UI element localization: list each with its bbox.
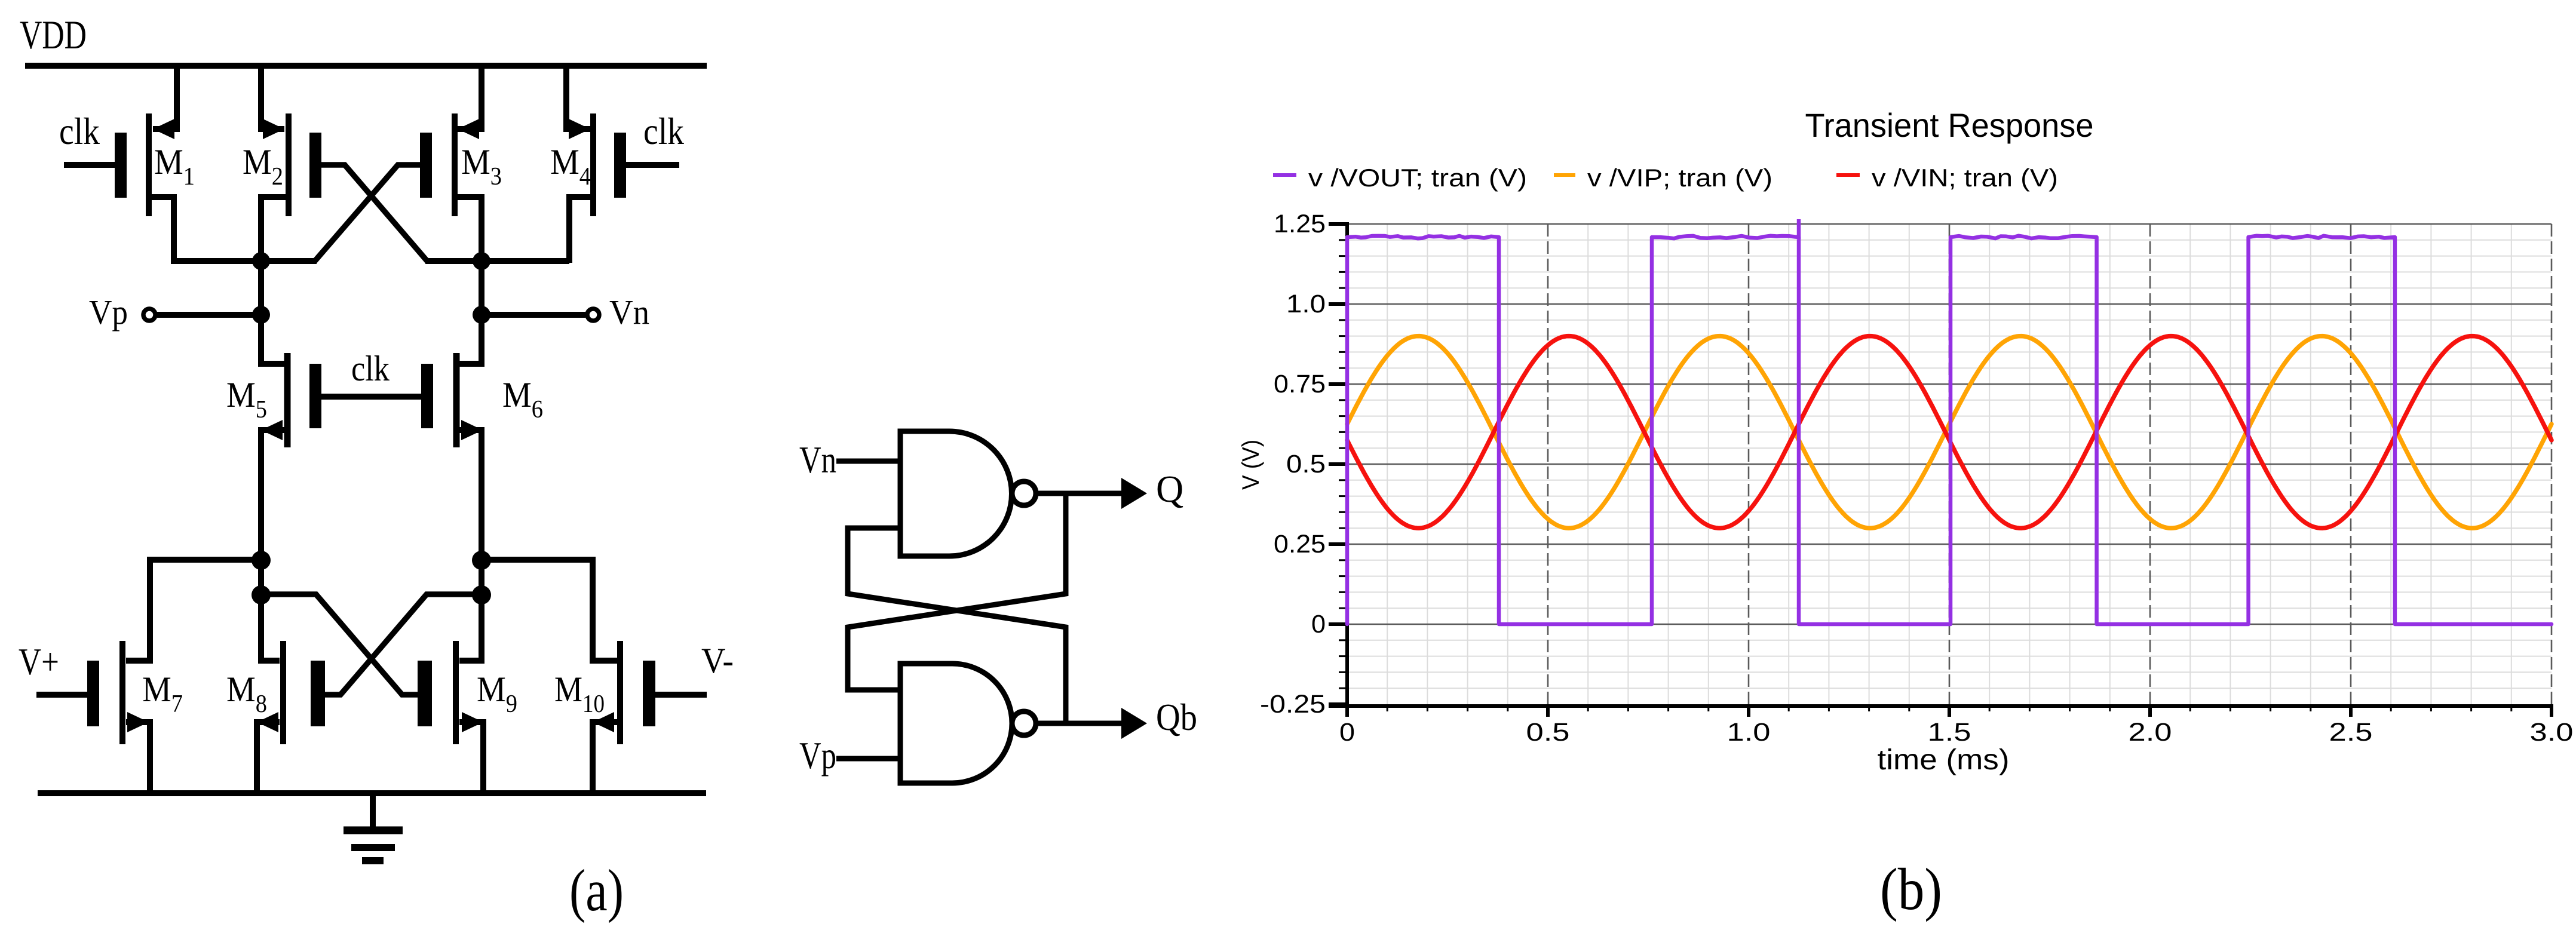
- svg-text:(a): (a): [569, 857, 624, 923]
- cross wire Q to U2 upper input: [848, 493, 1066, 690]
- legend swatch VIP: [1554, 173, 1575, 177]
- wire VDD to M3 source: [458, 63, 482, 129]
- label Vp: [89, 293, 128, 332]
- svg-text:v /VIP; tran (V): v /VIP; tran (V): [1587, 164, 1772, 192]
- wire VDD to M1 source: [153, 63, 177, 129]
- label Vp (latch input): [799, 734, 836, 777]
- x axis tick labels: [1339, 718, 2574, 747]
- label (a): [569, 857, 624, 923]
- label Vn: [609, 293, 649, 332]
- svg-text:2.0: 2.0: [2129, 718, 2172, 747]
- nand gate U2: [900, 664, 1012, 783]
- transistor M7 (NMOS): [87, 641, 150, 794]
- wire node N down to Vn: [479, 261, 484, 318]
- svg-text:1.0: 1.0: [1727, 718, 1771, 747]
- chart title Transient Response: [1805, 106, 2094, 144]
- cross wire Qb to U1 lower input: [848, 528, 1066, 723]
- label M1: [154, 142, 195, 191]
- svg-text:0.75: 0.75: [1274, 370, 1326, 398]
- svg-text:v /VIN; tran (V): v /VIN; tran (V): [1872, 164, 2058, 192]
- power rail VDD: [25, 63, 707, 69]
- transistor M3 (PMOS): [420, 113, 482, 263]
- label V+: [19, 640, 59, 683]
- svg-text:Q: Q: [1156, 468, 1183, 510]
- clk gate wire of M1: [64, 162, 115, 168]
- svg-text:V-: V-: [701, 641, 734, 680]
- svg-text:Vn: Vn: [609, 293, 649, 332]
- wire node X1 to M7 drain: [126, 560, 261, 661]
- svg-text:Qb: Qb: [1156, 696, 1197, 738]
- legend label VIP: [1587, 164, 1772, 192]
- svg-text:v /VOUT; tran (V): v /VOUT; tran (V): [1308, 164, 1527, 192]
- cross-coupling wire node X2 to M9 gate: [261, 594, 418, 695]
- x axis title time (ms): [1878, 744, 2010, 776]
- transistor M10 (NMOS): [593, 641, 655, 794]
- curve VOUT (purple square wave): [1347, 219, 2552, 624]
- label V-: [701, 641, 734, 680]
- junction dot node X2 (M8 drain): [252, 585, 271, 604]
- svg-text:0.5: 0.5: [1526, 718, 1570, 747]
- junction dot Vn: [473, 306, 490, 324]
- wire Vp to M5 drain: [261, 315, 284, 364]
- wire node X2 to M8 drain: [261, 560, 280, 661]
- cross-coupling wire M2 gate to node N: [321, 165, 427, 261]
- label M9: [477, 670, 517, 718]
- label M3: [461, 142, 502, 191]
- junction dot node Y1 (M6 source): [472, 551, 491, 570]
- legend swatch VIN: [1836, 173, 1860, 177]
- label M7: [142, 670, 183, 718]
- svg-text:-0.25: -0.25: [1260, 690, 1326, 719]
- wire Vn to M6 drain: [459, 315, 482, 364]
- nand gate U1: [900, 431, 1012, 556]
- port wire Vn: [482, 312, 585, 318]
- svg-text:time (ms): time (ms): [1878, 744, 2010, 776]
- transistor M8 (NMOS): [257, 641, 325, 794]
- cross-coupling wire M3 gate to node P: [315, 165, 420, 261]
- wire VDD to M2 source: [261, 63, 284, 129]
- label (b): [1880, 856, 1942, 922]
- y axis title V (V): [1238, 440, 1264, 490]
- wire node N (M3,M4 drains): [425, 258, 569, 264]
- label Qb: [1156, 696, 1197, 738]
- cross-coupling wire node Y2 to M8 gate: [325, 594, 482, 695]
- junction dot node Y2 (M9 drain): [472, 585, 491, 604]
- ground rail: [38, 790, 706, 796]
- clk gate wire of M4: [626, 162, 679, 168]
- legend label VOUT: [1308, 164, 1527, 192]
- junction dot node P: [252, 252, 270, 270]
- svg-text:(b): (b): [1880, 856, 1942, 922]
- chart minor grid: [1347, 224, 2552, 704]
- wire node Y1 to M10 drain: [482, 560, 617, 661]
- label Q: [1156, 468, 1183, 510]
- gate wire V- to M10: [655, 692, 707, 698]
- ground symbol: [344, 796, 403, 861]
- svg-text:V+: V+: [19, 640, 59, 683]
- svg-text:V (V): V (V): [1238, 440, 1264, 490]
- transistor M6 (NMOS): [421, 353, 483, 560]
- terminal circle Vp: [143, 309, 155, 321]
- y axis tick labels: [1260, 210, 1326, 719]
- inverter bubble U1: [1012, 481, 1036, 505]
- junction dot node N: [473, 252, 490, 270]
- svg-text:clk: clk: [59, 110, 100, 152]
- legend swatch VOUT: [1273, 173, 1296, 177]
- curve VIP (orange sine): [1347, 336, 2552, 529]
- label M6: [502, 375, 543, 423]
- svg-text:VDD: VDD: [20, 12, 87, 57]
- svg-text:clk: clk: [351, 349, 390, 388]
- label M5: [226, 375, 267, 423]
- svg-text:Vp: Vp: [799, 734, 836, 777]
- wire node P down to Vp: [258, 261, 264, 318]
- svg-text:1.0: 1.0: [1286, 290, 1326, 318]
- junction dot Vp: [252, 306, 270, 324]
- wire Vn to U1 input: [836, 459, 899, 464]
- svg-text:Vn: Vn: [799, 438, 836, 481]
- svg-text:1.25: 1.25: [1274, 210, 1326, 238]
- svg-text:1.5: 1.5: [1928, 718, 1971, 747]
- label M8: [226, 670, 267, 718]
- terminal circle Vn: [587, 309, 599, 321]
- label Vn (latch input): [799, 438, 836, 481]
- svg-text:clk: clk: [643, 110, 684, 152]
- junction dot node X1 (M5 source): [252, 551, 271, 570]
- output wire Qb: [1036, 708, 1147, 739]
- svg-text:0: 0: [1339, 718, 1355, 747]
- transistor M2 (PMOS): [261, 113, 321, 263]
- wire node Y2 to M9 drain: [459, 560, 482, 661]
- clk gate wire M5-M6: [321, 394, 422, 400]
- output wire Q: [1036, 478, 1147, 509]
- svg-text:0.25: 0.25: [1274, 530, 1326, 558]
- svg-text:Vp: Vp: [89, 293, 128, 332]
- svg-text:2.5: 2.5: [2329, 718, 2373, 747]
- gate wire V+ to M7: [36, 692, 87, 698]
- wire Vp to U2 input: [836, 756, 899, 762]
- chart axes and ticks: [1329, 222, 2553, 717]
- curve VIN (red sine): [1347, 336, 2552, 529]
- transistor M9 (NMOS): [418, 641, 483, 794]
- transistor M5 (NMOS): [261, 353, 321, 560]
- svg-text:3.0: 3.0: [2530, 718, 2574, 747]
- net label VDD: [20, 12, 87, 57]
- wire VDD to M4 source: [566, 63, 590, 129]
- label M4: [550, 142, 591, 191]
- label clk (mid): [351, 349, 390, 388]
- port wire Vp: [157, 312, 261, 318]
- legend label VIN: [1872, 164, 2058, 192]
- svg-text:0: 0: [1311, 610, 1326, 639]
- transistor M4 (PMOS): [569, 113, 626, 263]
- wire node P (M1,M2 drains): [171, 258, 317, 264]
- label M2: [243, 142, 283, 191]
- svg-text:0.5: 0.5: [1286, 450, 1326, 478]
- label M10: [554, 670, 605, 718]
- inverter bubble U2: [1012, 711, 1036, 735]
- transistor M1 (PMOS): [115, 113, 174, 263]
- label clk (M4): [643, 110, 684, 152]
- chart major grid: [1347, 224, 2552, 704]
- svg-text:Transient Response: Transient Response: [1805, 106, 2094, 144]
- label clk (M1): [59, 110, 100, 152]
